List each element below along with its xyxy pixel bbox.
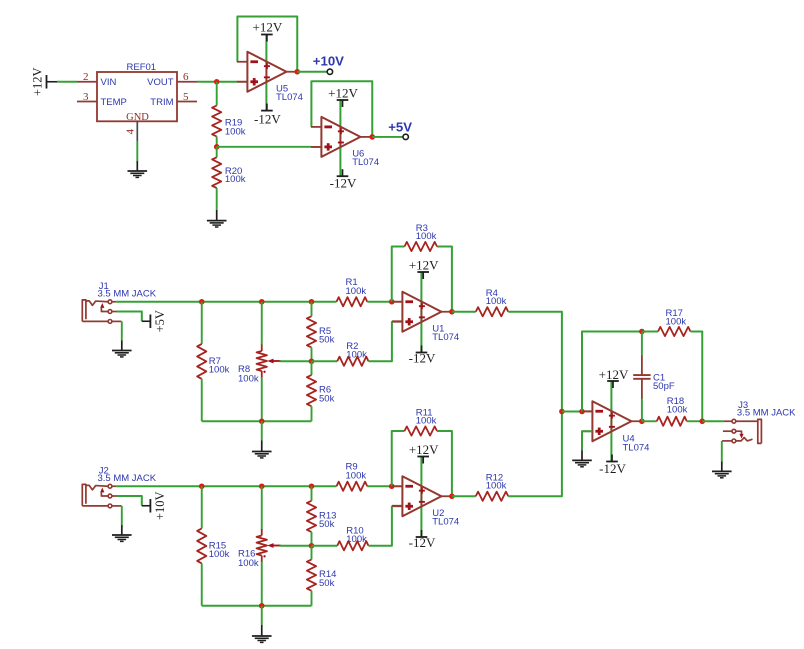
svg-text:100k: 100k bbox=[238, 558, 259, 569]
wire J2 ring to +10V supply tap bbox=[117, 496, 142, 506]
connector J2 3.5 MM JACK symbol bbox=[82, 484, 121, 507]
svg-text:5: 5 bbox=[183, 91, 189, 103]
junction R13 top bbox=[309, 483, 315, 489]
wire U5 noninverting stub bbox=[237, 81, 247, 83]
svg-text:6: 6 bbox=[183, 71, 189, 83]
junction ground bus channel 2 bbox=[259, 603, 265, 609]
wire J2 tip bus bbox=[116, 485, 336, 487]
op-amp U5 TL074 triangle bbox=[237, 52, 298, 92]
power +12V supply above U1 bbox=[409, 258, 439, 280]
resistor R1 100k bbox=[337, 297, 368, 306]
svg-text:TL074: TL074 bbox=[432, 332, 459, 343]
power -12V supply below U5 bbox=[254, 104, 281, 127]
junction R16 top bbox=[259, 483, 265, 489]
wire U2 feedback loop bbox=[392, 431, 405, 486]
wire R19-R20 node to U6 noninverting bbox=[217, 146, 312, 148]
wire ground bus channel 2 bbox=[202, 605, 312, 607]
wire U6 noninverting stub bbox=[311, 146, 321, 148]
ground below channel 2 bus bbox=[252, 625, 272, 642]
wire supply rail through U4 bbox=[610, 381, 612, 462]
ground below J2 bbox=[112, 525, 132, 541]
pin 3 stub TEMP bbox=[77, 101, 97, 103]
svg-text:-12V: -12V bbox=[254, 111, 281, 126]
junction U4 inverting node bbox=[579, 409, 585, 415]
power -12V supply below U4 bbox=[599, 455, 626, 476]
svg-text:2: 2 bbox=[83, 71, 89, 83]
wire U4 noninverting to ground bbox=[582, 431, 592, 450]
op-amp U4 TL074 triangle bbox=[582, 401, 643, 441]
svg-text:4: 4 bbox=[125, 129, 137, 135]
svg-text:100k: 100k bbox=[225, 174, 246, 185]
junction U2 inverting node bbox=[389, 483, 395, 489]
power +12V supply symbol at REF01 VIN bbox=[30, 67, 57, 96]
svg-text:TRIM: TRIM bbox=[150, 97, 173, 108]
wire J1 ring to +5V supply tap bbox=[117, 312, 142, 322]
junction R13-R14-R10 node bbox=[309, 543, 315, 549]
svg-text:+5V: +5V bbox=[388, 120, 412, 135]
svg-text:100k: 100k bbox=[209, 365, 230, 376]
junction R8 top bbox=[259, 299, 265, 305]
wire U6 feedback loop bbox=[311, 81, 372, 137]
wire U2 inverting stub bbox=[392, 485, 403, 487]
svg-text:+12V: +12V bbox=[409, 442, 439, 457]
svg-text:50k: 50k bbox=[319, 393, 335, 404]
svg-text:50pF: 50pF bbox=[653, 381, 675, 392]
svg-text:100k: 100k bbox=[346, 470, 367, 481]
resistor R13 50k bbox=[307, 486, 316, 546]
wire R12 to summing vertical bbox=[508, 412, 562, 497]
resistor R15 100k bbox=[197, 486, 206, 606]
ground at U4 noninverting bbox=[572, 451, 592, 467]
resistor R5 50k bbox=[307, 302, 316, 362]
wire C1 to output node bbox=[641, 398, 643, 421]
junction U2 output bbox=[449, 493, 455, 499]
power +12V supply above U5 bbox=[253, 19, 283, 41]
svg-text:TL074: TL074 bbox=[623, 442, 650, 453]
svg-text:-12V: -12V bbox=[409, 351, 436, 366]
wire supply rail through U5 bbox=[265, 35, 267, 111]
IC REF01 body bbox=[97, 72, 177, 121]
svg-text:+10V: +10V bbox=[313, 53, 344, 68]
potentiometer R16 100k bbox=[257, 529, 281, 562]
pin 4 stub GND bbox=[136, 121, 138, 141]
resistor R10 100k bbox=[312, 541, 369, 550]
wire bus to ground bbox=[261, 421, 263, 440]
wire U5 output to +10V port bbox=[297, 71, 327, 73]
svg-text:3.5 MM JACK: 3.5 MM JACK bbox=[98, 288, 157, 299]
svg-text:50k: 50k bbox=[319, 578, 335, 589]
op-amp U1 TL074 triangle bbox=[392, 292, 453, 332]
wire output node to J3 bbox=[702, 420, 723, 422]
wire U6 output to +5V port bbox=[372, 136, 403, 138]
svg-text:100k: 100k bbox=[238, 373, 259, 384]
wire U4 inverting stub bbox=[582, 411, 592, 413]
svg-text:+12V: +12V bbox=[409, 258, 439, 273]
wire R8 wiper to R2 node bbox=[280, 360, 312, 362]
port open circle +10V bbox=[327, 69, 332, 74]
connector J3 3.5 MM JACK symbol bbox=[722, 419, 761, 443]
junction R15 top bbox=[199, 483, 205, 489]
wire R16 bottom lead bbox=[261, 562, 263, 606]
ground below R20 bbox=[207, 210, 227, 227]
resistor R4 100k bbox=[476, 307, 509, 316]
svg-text:3.5 MM JACK: 3.5 MM JACK bbox=[98, 473, 157, 484]
power -12V supply below U2 bbox=[409, 530, 436, 550]
resistor R20 100k bbox=[212, 147, 221, 210]
resistor R17 100k bbox=[658, 327, 691, 336]
power +12V supply above U6 bbox=[328, 85, 358, 107]
wire J2 sleeve to ground bbox=[121, 506, 123, 525]
wire J1 sleeve to ground bbox=[121, 321, 123, 340]
power -12V supply below U6 bbox=[330, 169, 357, 190]
junction U5 output bbox=[294, 69, 300, 75]
wire GND pin to ground bbox=[136, 142, 138, 161]
resistor R18 100k bbox=[657, 417, 687, 426]
junction C1 R17 top node bbox=[639, 329, 645, 335]
wire U1 noninverting stub bbox=[392, 320, 403, 322]
svg-text:VOUT: VOUT bbox=[147, 77, 174, 88]
junction ground bus channel 1 bbox=[259, 418, 265, 424]
resistor R6 50k bbox=[307, 361, 316, 421]
wire R16 wiper to R10 node bbox=[280, 545, 312, 547]
junction R7 top bbox=[199, 299, 205, 305]
power +10V supply at J2 ring bbox=[142, 505, 151, 507]
junction R19-R20 node bbox=[214, 144, 220, 150]
svg-text:100k: 100k bbox=[346, 349, 367, 360]
svg-text:100k: 100k bbox=[486, 481, 507, 492]
wire R2 to U1 noninverting bbox=[369, 321, 392, 361]
wire top node to C1 bbox=[641, 332, 643, 357]
potentiometer R8 100k bbox=[257, 345, 281, 378]
wire summing node to U4 bbox=[562, 411, 582, 413]
svg-text:-12V: -12V bbox=[409, 535, 436, 550]
wire U1 feedback loop bbox=[392, 247, 405, 302]
wire R3 to U1 output bbox=[437, 247, 452, 312]
wire J1 tip bus bbox=[116, 301, 336, 303]
svg-text:100k: 100k bbox=[667, 405, 688, 416]
wire ground bus channel 1 bbox=[202, 420, 312, 422]
junction U1 output bbox=[449, 309, 455, 315]
pin 5 stub TRIM bbox=[177, 101, 197, 103]
junction U6 output bbox=[369, 134, 375, 140]
ground below channel 1 bus bbox=[252, 441, 272, 458]
svg-text:-12V: -12V bbox=[330, 176, 357, 191]
wire R1 to U1 inverting bbox=[367, 301, 392, 303]
power +5V supply at J1 ring bbox=[142, 320, 151, 322]
wire U5 feedback loop bbox=[237, 17, 297, 72]
resistor R9 100k bbox=[337, 482, 368, 491]
ground below REF01 bbox=[128, 161, 148, 177]
wire supply rail through U1 bbox=[420, 272, 422, 353]
pin 6 stub VOUT bbox=[177, 81, 197, 83]
port open circle +5V bbox=[403, 134, 408, 139]
resistor R14 50k bbox=[307, 546, 316, 606]
svg-text:+12V: +12V bbox=[253, 19, 283, 34]
wire U1 inverting stub bbox=[392, 301, 403, 303]
op-amp U2 TL074 triangle bbox=[392, 476, 453, 516]
resistor R12 100k bbox=[476, 492, 509, 501]
wire U2 noninverting stub bbox=[392, 505, 403, 507]
svg-text:3: 3 bbox=[83, 91, 89, 103]
power -12V supply below U1 bbox=[409, 346, 436, 366]
junction output node bbox=[699, 418, 705, 424]
wire R16 top lead bbox=[261, 486, 263, 529]
svg-text:100k: 100k bbox=[346, 286, 367, 297]
resistor R3 100k feedback bbox=[405, 242, 438, 251]
resistor R7 100k bbox=[197, 302, 206, 422]
junction R5 top bbox=[309, 299, 315, 305]
wire R8 bottom lead bbox=[261, 377, 263, 421]
connector J1 3.5 MM JACK symbol bbox=[82, 300, 121, 323]
wire U4 feedback to C1 R17 bbox=[582, 332, 642, 412]
wire R17 to output node bbox=[691, 332, 703, 422]
svg-text:-12V: -12V bbox=[599, 461, 626, 476]
wire J3 sleeve to ground bbox=[721, 441, 723, 462]
junction VOUT node bbox=[214, 79, 220, 85]
svg-text:100k: 100k bbox=[225, 126, 246, 137]
junction summing node bbox=[559, 409, 565, 415]
wire R4 to summing vertical bbox=[508, 312, 562, 412]
svg-text:100k: 100k bbox=[209, 549, 230, 560]
wire U4 output to R18 bbox=[642, 420, 657, 422]
wire U2 output to R12 bbox=[452, 495, 476, 497]
svg-text:TL074: TL074 bbox=[432, 517, 459, 528]
wire bus to ground channel 2 bbox=[261, 606, 263, 625]
svg-text:+12V: +12V bbox=[328, 85, 358, 100]
junction U1 inverting node bbox=[389, 299, 395, 305]
svg-text:100k: 100k bbox=[666, 317, 687, 328]
svg-text:TL074: TL074 bbox=[352, 157, 379, 168]
svg-text:+5V: +5V bbox=[153, 310, 167, 332]
resistor R2 100k bbox=[312, 357, 369, 366]
svg-text:100k: 100k bbox=[486, 296, 507, 307]
op-amp U6 TL074 triangle bbox=[311, 117, 372, 157]
wire R9 to U2 inverting bbox=[367, 485, 392, 487]
ground below J3 bbox=[712, 462, 732, 478]
resistor R19 100k bbox=[212, 82, 221, 147]
svg-text:3.5 MM JACK: 3.5 MM JACK bbox=[737, 407, 796, 418]
wire +12V to REF01 VIN bbox=[57, 81, 77, 83]
wire VOUT to node bbox=[197, 81, 237, 83]
svg-text:100k: 100k bbox=[416, 416, 437, 427]
capacitor C1 50pF bbox=[633, 356, 650, 399]
wire R11 to U2 output bbox=[437, 431, 452, 496]
svg-text:+12V: +12V bbox=[599, 367, 629, 382]
power +12V supply above U2 bbox=[409, 442, 439, 464]
resistor R11 100k feedback bbox=[405, 426, 438, 435]
svg-text:VIN: VIN bbox=[101, 77, 117, 88]
svg-text:50k: 50k bbox=[319, 335, 335, 346]
svg-text:100k: 100k bbox=[346, 534, 367, 545]
junction U4 output bbox=[639, 418, 645, 424]
wire R10 to U2 noninverting bbox=[369, 506, 392, 546]
svg-text:+12V: +12V bbox=[30, 67, 44, 96]
svg-text:TL074: TL074 bbox=[276, 92, 303, 103]
svg-text:REF01: REF01 bbox=[127, 62, 157, 73]
ground below J1 bbox=[112, 341, 132, 357]
wire R8 top lead bbox=[261, 302, 263, 345]
wire R18 to output node bbox=[687, 420, 703, 422]
junction R5-R6-R2 node bbox=[309, 358, 315, 364]
svg-text:100k: 100k bbox=[416, 231, 437, 242]
svg-text:+10V: +10V bbox=[153, 491, 167, 520]
svg-text:50k: 50k bbox=[319, 519, 335, 530]
svg-text:TEMP: TEMP bbox=[101, 97, 127, 108]
wire supply rail through U2 bbox=[420, 457, 422, 538]
wire top node to R17 bbox=[642, 331, 658, 333]
wire supply rail through U6 bbox=[339, 100, 341, 176]
power +12V supply above U4 bbox=[599, 367, 629, 388]
pin 2 stub VIN bbox=[77, 81, 97, 83]
wire U1 output to R4 bbox=[452, 311, 476, 313]
